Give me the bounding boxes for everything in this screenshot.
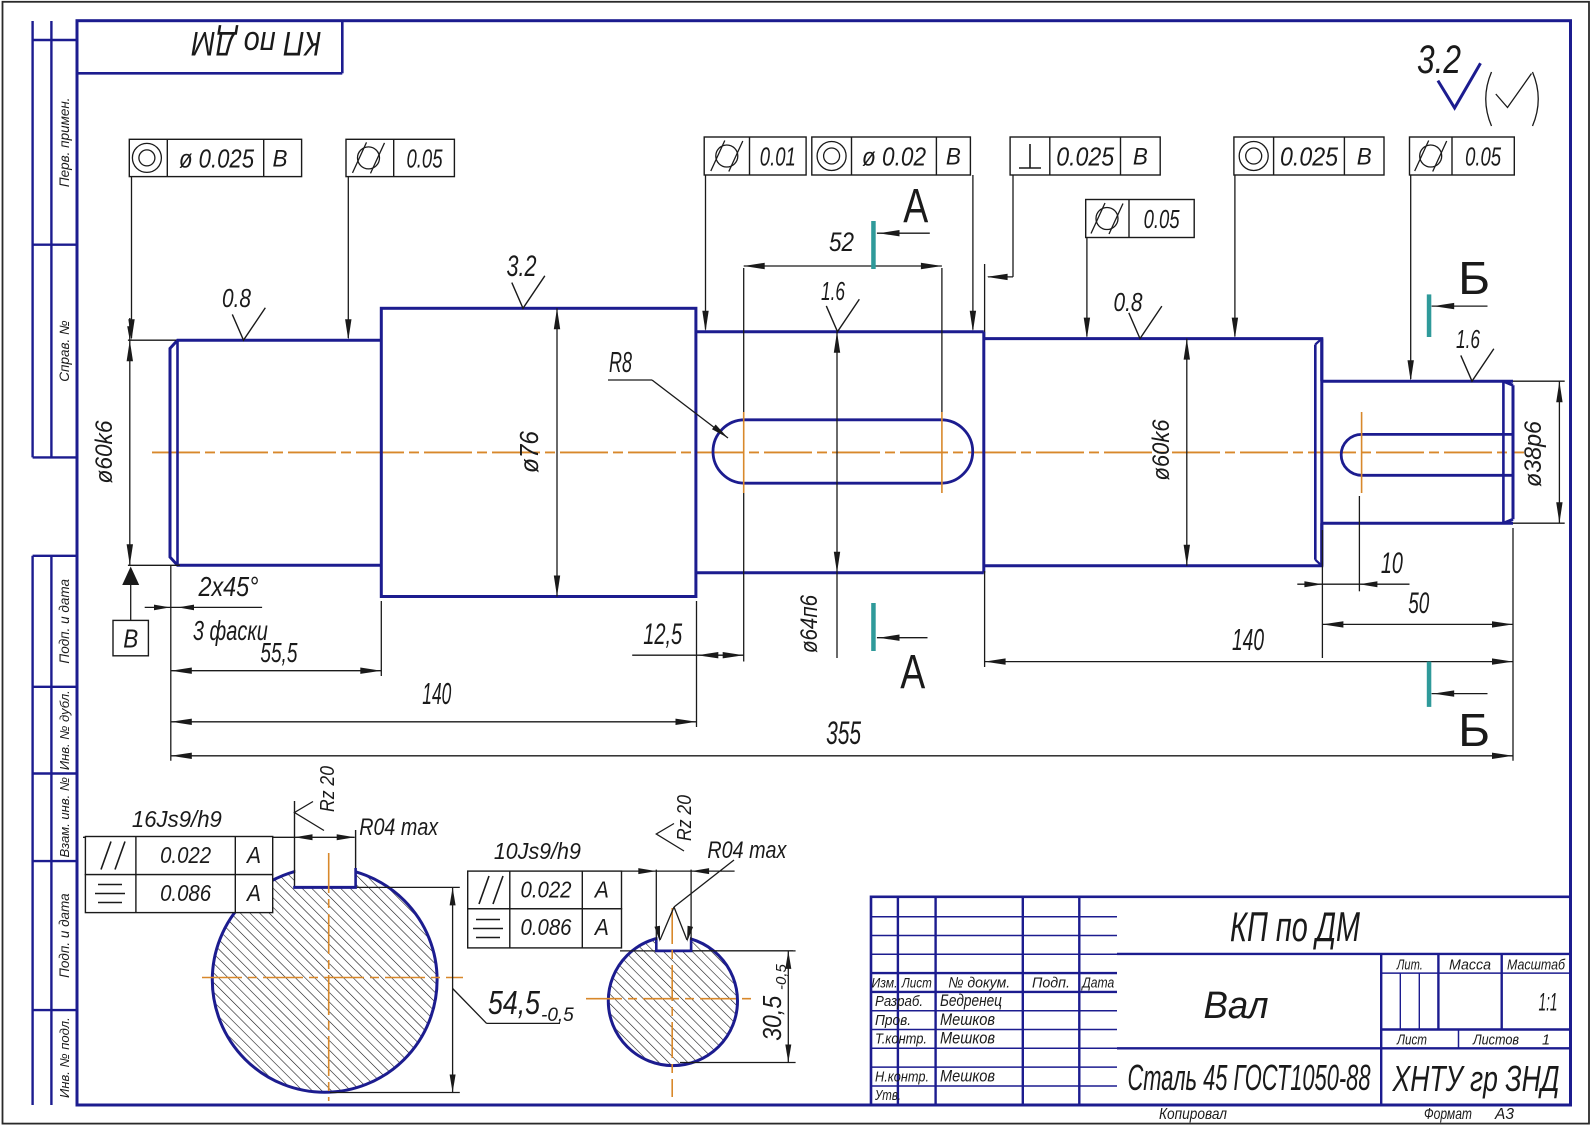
svg-text:Вал: Вал <box>1204 985 1269 1027</box>
section Б-Б centerlines <box>586 908 752 1097</box>
svg-text:ХНТУ гр ЗНД: ХНТУ гр ЗНД <box>1392 1058 1560 1099</box>
slot centerline marks section 3 <box>744 412 942 493</box>
svg-text:Перв. примен.: Перв. примен. <box>57 97 72 187</box>
leader from frame 6 <box>1084 238 1090 339</box>
svg-text:Подп. и дата: Подп. и дата <box>57 579 72 664</box>
dimension 52 <box>744 227 942 412</box>
section cut A top <box>871 180 930 269</box>
shaft section 5 (ø38р6 end) <box>1322 339 1513 566</box>
dimension ø38р6 <box>1513 381 1565 523</box>
roughness 0.8 on section 4 <box>1114 287 1162 339</box>
section Б-Б keyway notch <box>620 870 793 951</box>
svg-text:Лит.: Лит. <box>1396 957 1423 974</box>
roughness Rz 20 on keyway Б <box>656 795 696 851</box>
svg-text:0.8: 0.8 <box>222 283 251 313</box>
svg-text:В: В <box>1133 144 1148 171</box>
svg-text:-0,5: -0,5 <box>541 1005 574 1026</box>
shaft section 4 (ø60k6 right) <box>985 339 1322 566</box>
svg-text:Взам. инв. №: Взам. инв. № <box>57 777 72 857</box>
dimension ø64п6 <box>796 332 840 658</box>
top-left stamp box КП по ДМ (rotated 180) <box>77 21 342 74</box>
svg-text:3.2: 3.2 <box>507 250 537 283</box>
svg-text:52: 52 <box>829 227 854 257</box>
footer labels <box>1159 1106 1514 1123</box>
dimension 50 <box>1322 587 1513 628</box>
dimension ø60k6 left with datum B <box>91 318 180 656</box>
label Подп. и дата (lower) <box>57 893 72 978</box>
slot centerline mark section 5 <box>1361 412 1363 493</box>
label R04 max (Б) with corner arrows <box>654 837 787 943</box>
leader from frame 8 <box>1408 175 1414 381</box>
svg-text:А: А <box>593 877 609 903</box>
dimension 12,5 <box>632 268 744 662</box>
svg-text:16Js9/h9: 16Js9/h9 <box>132 806 222 832</box>
section A-A centerlines <box>202 853 463 1101</box>
section cut A bottom <box>871 603 927 699</box>
svg-text:30,5: 30,5 <box>757 995 787 1040</box>
svg-text:ø 0.025: ø 0.025 <box>179 144 254 174</box>
svg-text:1.6: 1.6 <box>1456 324 1480 354</box>
roughness Rz 20 on keyway A <box>295 766 340 831</box>
svg-text:В: В <box>123 624 138 654</box>
svg-text:Листов: Листов <box>1472 1032 1519 1049</box>
svg-text:А: А <box>900 646 925 699</box>
keyway slot section 3 <box>713 420 973 483</box>
svg-text:В: В <box>946 144 961 171</box>
leader from frame 3 <box>702 175 708 332</box>
section A-A circle <box>212 852 437 1092</box>
tolerance frame concentricity 0.025 B (left) <box>129 139 301 176</box>
section A-A keyway notch <box>293 801 357 887</box>
svg-text:А: А <box>903 180 928 233</box>
section cut Б bottom <box>1427 662 1490 756</box>
svg-text:Подп. и дата: Подп. и дата <box>57 893 72 978</box>
svg-text:Инв. № подл.: Инв. № подл. <box>57 1017 72 1098</box>
svg-text:Н.контр.: Н.контр. <box>875 1069 929 1086</box>
svg-text:А3: А3 <box>1494 1106 1514 1123</box>
svg-text:ø38р6: ø38р6 <box>1520 420 1547 487</box>
svg-text:R8: R8 <box>609 347 632 379</box>
svg-text:0.01: 0.01 <box>760 142 796 172</box>
svg-text:Копировал: Копировал <box>1159 1106 1227 1123</box>
svg-text:ø64п6: ø64п6 <box>796 594 823 653</box>
svg-text:Rz 20: Rz 20 <box>317 766 339 812</box>
section Б-Б circle <box>608 929 737 1066</box>
tolerance frame concentricity 0.025 B (right) <box>1234 137 1384 175</box>
leader R8 <box>608 347 730 440</box>
svg-text:R04 max: R04 max <box>707 837 787 864</box>
tolerance frame concentricity 0.02 B <box>812 137 971 175</box>
svg-text:0.8: 0.8 <box>1114 287 1143 317</box>
svg-text:Масса: Масса <box>1449 957 1491 974</box>
leader from frame 1 <box>128 177 134 341</box>
svg-text:Rz 20: Rz 20 <box>674 795 696 841</box>
svg-text:ø60k6: ø60k6 <box>91 420 118 484</box>
svg-text:Утв.: Утв. <box>874 1087 901 1104</box>
label R04 max (A) <box>359 814 439 841</box>
dimension 30,5 <box>680 951 796 1063</box>
keyway width dim 10Js9/h9 <box>494 838 735 874</box>
general roughness 3.2 mark <box>1417 38 1481 108</box>
roughness 1.6 on section 5 <box>1456 324 1494 381</box>
symmetry frame 0.086 A (section A) <box>85 875 272 913</box>
svg-text:0.05: 0.05 <box>407 144 443 174</box>
title block texts <box>872 903 1566 1104</box>
dimension ø60k6 right <box>1148 339 1190 566</box>
svg-text:10Js9/h9: 10Js9/h9 <box>494 838 581 864</box>
svg-text:0.05: 0.05 <box>1465 142 1501 172</box>
tolerance frame perpendicularity 0.025 B <box>1010 137 1160 175</box>
dimension ø76 <box>514 308 560 596</box>
tolerance frame cylindricity 0.05 (right) <box>1410 137 1515 175</box>
svg-text:Сталь 45 ГОСТ1050-88: Сталь 45 ГОСТ1050-88 <box>1128 1057 1371 1098</box>
left margin column lower boxes <box>33 556 77 1105</box>
svg-text:В: В <box>1357 144 1372 171</box>
keyway slot section 5 <box>1341 434 1513 475</box>
svg-text:Формат: Формат <box>1424 1106 1472 1123</box>
svg-text:№ докум.: № докум. <box>948 975 1010 992</box>
left margin column upper boxes <box>33 21 77 457</box>
svg-text:3 фаски: 3 фаски <box>193 615 268 646</box>
svg-text:50: 50 <box>1408 587 1429 620</box>
chamfer dimension 2x45 <box>145 571 269 646</box>
svg-text:А: А <box>245 842 261 868</box>
label Инв. № дубл. <box>57 690 72 770</box>
svg-text:КП по ДМ: КП по ДМ <box>191 24 322 62</box>
roughness 0.8 on section 1 <box>222 283 265 340</box>
svg-text:2х45°: 2х45° <box>198 571 259 602</box>
(check) symbol <box>1486 72 1539 126</box>
svg-text:55,5: 55,5 <box>260 637 297 668</box>
svg-text:Справ. №: Справ. № <box>57 320 72 382</box>
svg-text:ø 0.02: ø 0.02 <box>862 142 926 172</box>
svg-text:1:1: 1:1 <box>1539 989 1558 1017</box>
svg-text:0.025: 0.025 <box>1280 142 1338 172</box>
tolerance frame cylindricity 0.05 (left) <box>346 139 454 176</box>
svg-text:Лист: Лист <box>901 975 932 991</box>
dimension 140 left <box>171 601 697 727</box>
svg-text:Бедренец: Бедренец <box>940 991 1002 1010</box>
symmetry frame 0.086 A (section Б) <box>468 909 622 948</box>
svg-text:0.05: 0.05 <box>1144 204 1180 234</box>
svg-text:Лист: Лист <box>1396 1032 1427 1049</box>
svg-text:0.086: 0.086 <box>521 914 572 940</box>
svg-text:R04 max: R04 max <box>359 814 439 841</box>
tolerance frame cylindricity 0.05 (middle) <box>1086 200 1195 238</box>
svg-text:Разраб.: Разраб. <box>875 993 923 1010</box>
dimension 10 (keyway position) <box>1297 496 1409 658</box>
svg-text:Масштаб: Масштаб <box>1507 957 1565 974</box>
label Подп. и дата (upper) <box>57 579 72 664</box>
svg-text:А: А <box>593 914 609 940</box>
svg-text:0.086: 0.086 <box>160 880 211 906</box>
svg-text:Инв. № дубл.: Инв. № дубл. <box>57 690 72 770</box>
svg-text:355: 355 <box>826 715 861 751</box>
svg-text:10: 10 <box>1381 547 1403 580</box>
svg-text:Б: Б <box>1458 704 1490 756</box>
svg-text:0.025: 0.025 <box>1056 142 1114 172</box>
svg-text:Т.контр.: Т.контр. <box>875 1031 927 1048</box>
parallelism frame 0.022 A (section A) <box>85 837 272 875</box>
roughness 1.6 on section 3 <box>821 276 859 332</box>
dimension 355 <box>171 528 1513 761</box>
svg-text:Мешков: Мешков <box>940 1067 995 1086</box>
svg-text:0.022: 0.022 <box>160 842 211 868</box>
svg-text:ø60k6: ø60k6 <box>1148 419 1175 481</box>
svg-text:140: 140 <box>1232 622 1264 657</box>
svg-text:0.022: 0.022 <box>521 877 572 903</box>
title block grid <box>871 897 1571 1105</box>
label Перв. примен. <box>57 97 72 187</box>
leader from frame 7 <box>1232 175 1238 339</box>
tolerance frame cylindricity 0.01 <box>704 137 806 175</box>
svg-text:Изм.: Изм. <box>872 975 898 991</box>
parallelism frame 0.022 A (section Б) <box>468 871 622 909</box>
svg-text:Пров.: Пров. <box>875 1012 911 1029</box>
svg-text:54,5: 54,5 <box>488 984 541 1021</box>
label Инв. № подл. <box>57 1017 72 1098</box>
svg-text:12,5: 12,5 <box>643 618 682 651</box>
label Справ. № <box>57 320 72 382</box>
leader from frame 4 <box>970 175 976 332</box>
svg-text:1.6: 1.6 <box>821 276 845 306</box>
svg-text:КП по ДМ: КП по ДМ <box>1230 903 1360 950</box>
roughness 3.2 on section 2 <box>507 250 545 308</box>
label Взам. инв. № <box>57 777 72 857</box>
keyway width dim 16Js9/h9 <box>83 806 355 840</box>
svg-text:ø76: ø76 <box>514 431 544 473</box>
shaft section 1 (ø60k6 left) <box>170 340 381 565</box>
svg-text:Мешков: Мешков <box>940 1029 995 1048</box>
svg-text:-0,5: -0,5 <box>773 963 790 990</box>
dimension 140 right <box>985 571 1513 667</box>
shaft section 3 (ø64п6 with keyway) <box>696 332 984 573</box>
main centerline <box>152 451 1524 453</box>
dimension 54,5 <box>330 887 574 1092</box>
svg-text:Подп.: Подп. <box>1032 975 1070 992</box>
dimension 55,5 <box>171 565 381 761</box>
svg-text:А: А <box>245 880 261 906</box>
svg-text:1: 1 <box>1542 1032 1550 1049</box>
svg-text:Дата: Дата <box>1081 975 1115 992</box>
svg-text:140: 140 <box>422 676 451 711</box>
section cut Б top <box>1427 252 1490 337</box>
leader from perpendicularity frame <box>985 175 1013 339</box>
leader from frame 2 <box>345 177 351 341</box>
svg-text:В: В <box>273 146 288 173</box>
svg-text:Мешков: Мешков <box>940 1010 995 1029</box>
shaft section 2 (ø76) <box>381 308 696 596</box>
svg-text:Б: Б <box>1458 252 1490 304</box>
svg-text:3.2: 3.2 <box>1417 38 1461 82</box>
